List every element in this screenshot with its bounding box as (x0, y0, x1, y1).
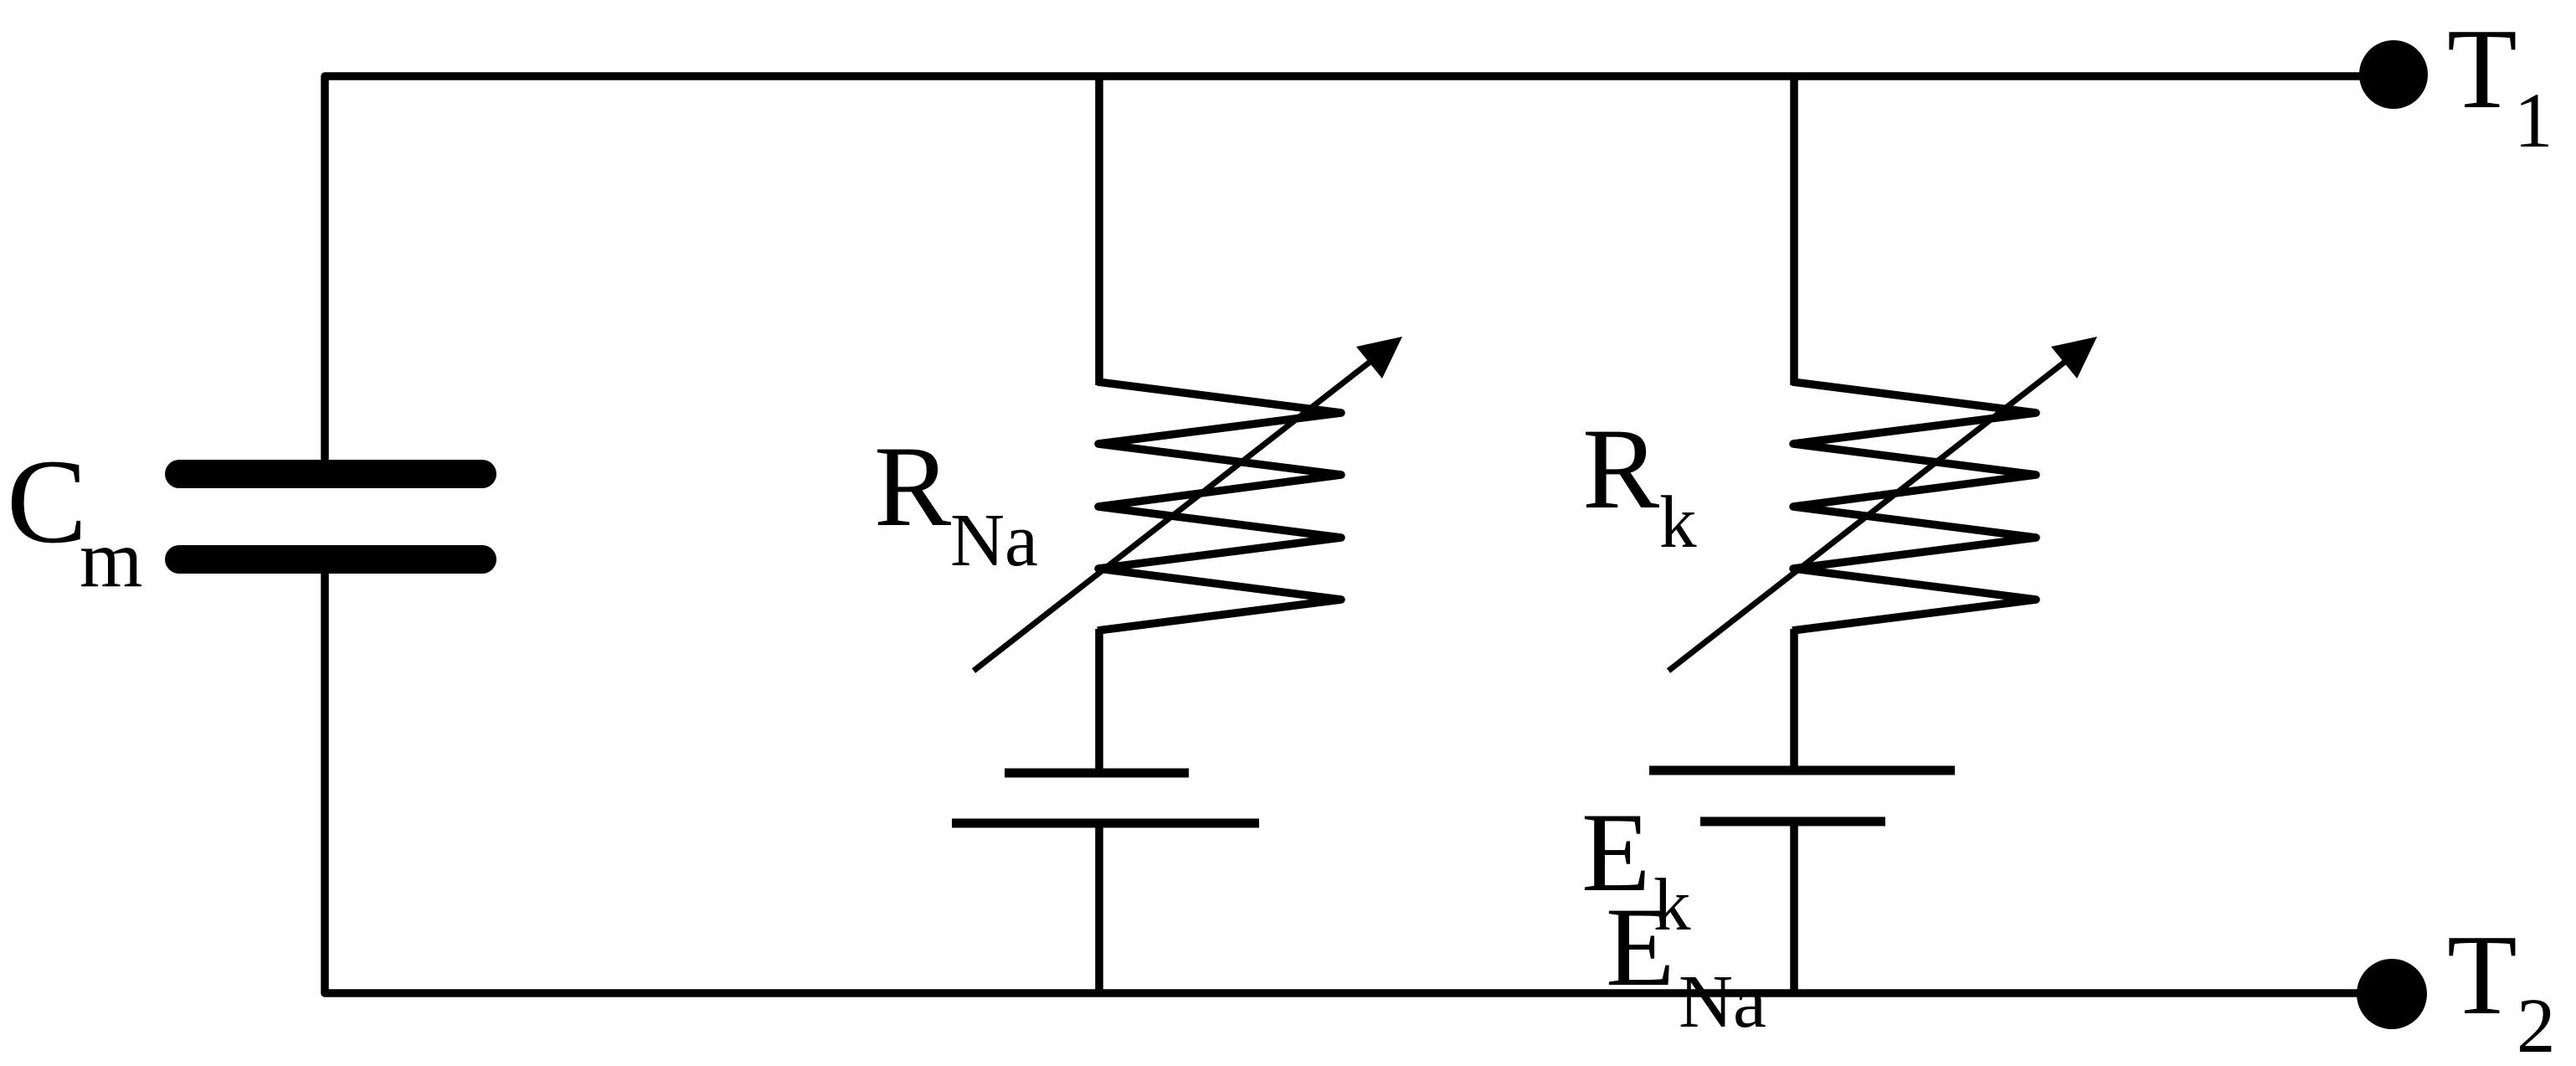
svg-text:m: m (80, 514, 142, 604)
svg-text:C: C (7, 435, 87, 569)
svg-text:R: R (1582, 404, 1659, 533)
wire right branch bottom (1790, 821, 1798, 993)
svg-text:E: E (1606, 885, 1674, 1010)
resistor R_k zigzag (1792, 382, 2036, 631)
svg-text:Na: Na (1679, 960, 1766, 1043)
wire right branch mid (1790, 629, 1798, 770)
svg-text:1: 1 (2514, 78, 2553, 164)
resistor R_k arrowhead (2051, 337, 2097, 379)
svg-text:2: 2 (2517, 983, 2556, 1066)
svg-text:R: R (874, 422, 951, 550)
svg-text:T: T (2447, 5, 2517, 132)
wire middle branch mid (1095, 629, 1103, 773)
wire top rail (325, 76, 2372, 466)
resistor R_Na arrowhead (1356, 337, 1402, 379)
battery E_Na long plate (952, 819, 1259, 828)
svg-text:k: k (1659, 482, 1697, 564)
wire right branch top (1790, 76, 1798, 385)
terminal T1 dot (2359, 40, 2428, 109)
wire bottom rail (325, 566, 2369, 993)
resistor R_Na arrow shaft (974, 358, 1375, 671)
wire middle branch bottom (1095, 823, 1103, 993)
battery E_k short plate (1700, 817, 1885, 827)
resistor R_Na zigzag (1098, 382, 1341, 631)
battery E_Na short plate (1005, 769, 1189, 778)
capacitor C_m bottom plate (179, 545, 482, 574)
terminal T2 dot (2357, 959, 2427, 1029)
svg-text:T: T (2447, 911, 2517, 1038)
wire middle branch top (1095, 76, 1103, 385)
svg-text:Na: Na (950, 499, 1038, 582)
resistor R_k arrow shaft (1668, 358, 2070, 671)
capacitor C_m top plate (179, 460, 482, 488)
battery E_k long plate (1649, 766, 1955, 775)
